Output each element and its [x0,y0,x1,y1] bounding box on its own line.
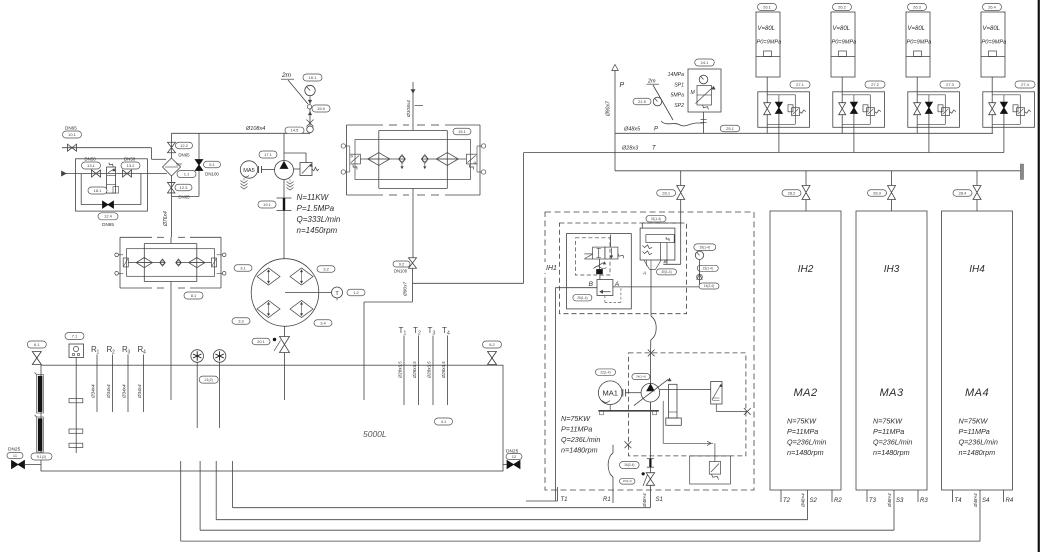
induction heater unit IH3 box [856,211,927,490]
svg-text:Ø34x4: Ø34x4 [106,384,111,399]
svg-text:3.3: 3.3 [238,318,244,323]
wire feed valve 28.1 into IH1 pilot valve [680,200,682,265]
motor MA5 [240,161,257,178]
label ellipse 14(2-4) [699,283,719,289]
junction X left [625,441,632,448]
svg-text:Ø48×4: Ø48×4 [642,493,647,508]
svg-text:P: P [654,127,658,133]
svg-text:Ø34x4: Ø34x4 [91,384,96,399]
svg-text:N=75KW: N=75KW [959,417,989,426]
IH1 pump sub-block dashed box [629,353,746,456]
motor MA1 [598,381,622,405]
svg-text:P0=9MPa: P0=9MPa [982,40,1007,46]
suction filter element left [128,262,165,264]
svg-text:N=75KW: N=75KW [873,417,903,426]
svg-text:28.3: 28.3 [873,190,882,195]
proportional pilot on valve [599,259,601,269]
label ellipse 22(1-4) [596,369,616,376]
svg-text:Q=333L/min: Q=333L/min [297,215,341,224]
svg-text:N=75KW: N=75KW [787,417,817,426]
svg-text:R4: R4 [1006,498,1014,504]
cooler assembly circle [251,259,319,327]
check valve in fill block [103,201,114,208]
label ellipse 8.1 [184,292,203,299]
svg-text:3.2: 3.2 [323,266,329,271]
svg-text:12.3: 12.3 [180,185,189,190]
gauge isolation valve and check to header [309,109,311,126]
svg-text:V=80L: V=80L [833,26,851,32]
air breather 6.2 on tank [483,341,502,348]
pump base rail [598,410,658,412]
wire suction line S2 from tank [215,461,217,520]
label ellipse 17.1 [259,151,277,158]
valve 9.2 DN100 on return [412,195,414,258]
induction heater unit IH4 box [942,211,1013,490]
svg-text:19.1: 19.1 [263,202,272,207]
label ellipse 23(1-4) [697,265,718,271]
svg-text:DN50: DN50 [85,157,97,162]
svg-text:MA2: MA2 [793,387,817,399]
sheet right border [1038,0,1040,552]
svg-text:1.2: 1.2 [353,290,359,295]
svg-text:SP2: SP2 [674,103,684,109]
label ellipse 1.2 [347,289,365,296]
wire 27.4 to T bus [1003,114,1005,153]
wire pump riser [283,133,285,160]
svg-text:12.4: 12.4 [104,214,113,219]
cooler thermometer T [285,292,332,294]
port T2 [780,490,782,502]
coupling MA1 [622,389,624,397]
svg-text:Q=236L/min: Q=236L/min [959,438,998,447]
svg-text:27.3: 27.3 [946,82,955,87]
wire pressure switch to P bus with orifice [703,112,705,133]
svg-text:26.3: 26.3 [913,4,922,9]
label ellipse 14.5 [285,127,304,134]
reducing valve B-A [597,280,613,296]
isolation valve 28.2 on IH2 feed [805,171,807,186]
svg-text:n=1480rpm: n=1480rpm [873,448,910,457]
accumulator valve block 27.4 [1015,81,1035,88]
shutoff valve (hollow) in block 27.4 [989,103,996,115]
svg-text:27.1: 27.1 [796,82,805,87]
svg-text:1.1: 1.1 [184,171,190,176]
wire return branch from T collector [413,282,524,284]
junction X right [744,408,751,415]
IH1 valve sub-block box [567,234,632,309]
check valve left [399,155,406,164]
label ellipse 25(1-4) [573,294,592,301]
svg-text:DN25: DN25 [8,447,21,453]
wire T collector down from T bus [523,153,525,284]
accumulator 26.3 V=80L P0=9MPa [908,4,927,11]
svg-text:T1: T1 [561,497,568,503]
svg-text:25(1-4): 25(1-4) [577,296,587,300]
wire A line to gauge chain [613,286,700,288]
air breather 6.1 on tank [27,341,46,348]
shutoff valve (closed) in block 27.2 [853,95,855,102]
svg-text:7.1: 7.1 [72,333,78,338]
svg-text:18.1: 18.1 [94,188,103,193]
IH1 inner dashed box [559,223,686,314]
svg-text:Ø108x4: Ø108x4 [245,126,265,132]
svg-text:MA5: MA5 [243,168,255,174]
svg-text:14(2-4): 14(2-4) [704,284,714,288]
svg-text:n=1450rpm: n=1450rpm [297,226,338,235]
pump control cylinder [669,384,677,418]
label ellipse 16.1 [303,74,322,81]
svg-text:B: B [589,281,594,288]
svg-text:21.5: 21.5 [638,99,647,104]
wire suction from tank to duplex filter 8.1 [170,288,172,400]
funnel to port A [644,260,650,270]
svg-text:3.4: 3.4 [320,320,326,325]
svg-text:S4: S4 [982,498,990,504]
wire cooler drain into tank [284,353,286,401]
svg-text:Q=236L/min: Q=236L/min [561,435,600,444]
svg-text:2m: 2m [281,72,292,79]
float switch rod in tank [75,358,77,454]
svg-text:15.1: 15.1 [458,129,467,134]
pressure gauge on header [305,85,315,95]
svg-text:21(2): 21(2) [205,378,213,382]
wire suction line S3 from tank [199,461,201,530]
flexible coupling on pump drop [283,180,285,199]
svg-text:P=11MPa: P=11MPa [561,425,592,434]
wire 27.2 to T bus [853,114,855,153]
wire pilot valve output with flexible hose [650,270,652,317]
wire 2m hose diagonal and flex hose to P bus [653,85,673,120]
suction filter inner box [127,249,215,277]
junction X top [648,350,655,357]
svg-text:27.4: 27.4 [1021,82,1030,87]
svg-text:3.1: 3.1 [240,265,246,270]
drain valve box in pump block [690,456,731,484]
svg-text:31(1-4): 31(1-4) [651,217,661,221]
oil tank 5000L [41,365,503,471]
svg-text:24.1: 24.1 [701,60,710,65]
wire accumulator 26.4 to valve block [991,77,993,103]
wire fill block main line with inlet arrow [66,173,167,175]
check valve right [421,155,428,164]
label ellipse 3.2 [317,266,335,273]
solenoid directional valve W [610,235,612,248]
svg-text:Ø48×4: Ø48×4 [973,493,978,508]
svg-text:P0=9MPa: P0=9MPa [757,40,782,46]
wire accumulator 26.1 to valve block [766,77,768,103]
svg-text:14.5: 14.5 [291,128,300,133]
label ellipse 15(2-4) [620,478,635,484]
label ellipse 9.1(2) [31,453,52,460]
svg-text:DN65: DN65 [102,222,114,227]
svg-text:Q=236L/min: Q=236L/min [787,438,826,447]
wire return line into duplex filter with arrow [412,82,414,125]
svg-text:DN50: DN50 [124,157,136,162]
svg-text:10.1: 10.1 [68,132,77,137]
svg-text:6.2: 6.2 [489,342,495,347]
wire T bus #28x3 [524,152,1004,154]
cooler check diamonds [257,268,280,285]
fill unit block box [76,159,148,211]
svg-text:Ø34x4: Ø34x4 [122,384,127,399]
svg-text:26.2: 26.2 [838,4,847,9]
valve 12.3 DN65 [171,176,173,237]
svg-text:20.1: 20.1 [257,339,266,344]
suction check right [176,259,182,266]
label ellipse 25.1 [720,125,740,132]
wire S1 suction with flow meter [649,402,651,459]
svg-text:Ø34x4: Ø34x4 [137,384,142,399]
svg-text:IH3: IH3 [884,264,900,275]
shutoff valve (hollow) in block 27.2 [839,103,846,115]
svg-text:V=80L: V=80L [908,26,926,32]
svg-text:n=1480rpm: n=1480rpm [959,448,996,457]
svg-text:16.1: 16.1 [309,75,318,80]
level gauge lower [37,417,44,452]
wire P manifold to IH valves [614,133,616,171]
accumulator 26.2 V=80L P0=9MPa [833,4,852,11]
accumulator valve block 27.3 [940,81,960,88]
wire B line from valve to drop [555,287,597,289]
svg-text:Ø28x3.5: Ø28x3.5 [412,361,417,379]
level-temperature indicator 7.1 [65,333,84,340]
wire accumulator 26.3 to valve block [916,77,918,103]
svg-text:P=11MPa: P=11MPa [787,427,818,436]
shutoff valve (hollow) in block 27.1 [764,103,771,115]
valve 13.1 [92,170,101,177]
filter element right [421,158,466,160]
suction changeover valves [123,258,128,267]
duplex filter ports [341,144,345,148]
svg-text:5.1: 5.1 [209,162,215,167]
main pump P1 variable [641,383,660,402]
svg-text:5W: 5W [176,163,182,167]
svg-text:DN65: DN65 [178,153,190,158]
svg-text:15.5: 15.5 [317,106,326,111]
svg-text:T2: T2 [783,498,791,504]
svg-text:MA3: MA3 [879,387,904,399]
plugged end bar of P manifold [1020,164,1023,180]
svg-text:9.2: 9.2 [399,261,405,266]
wire 27.3 to T bus [928,114,930,153]
label ellipse 19.1 [258,201,276,208]
svg-text:22(1-4): 22(1-4) [600,370,610,374]
label ellipse 16(2-4) [620,462,640,469]
svg-text:R2: R2 [834,498,842,504]
svg-text:DN100: DN100 [205,172,219,177]
svg-text:Ø28x3.5: Ø28x3.5 [427,361,432,379]
svg-text:24(1-4): 24(1-4) [636,375,646,379]
arrow down to valve [309,96,311,104]
shutoff valve (closed) in block 27.3 [928,95,930,102]
pressure switch box SP1/SP2 [688,69,721,112]
svg-text:16(2-4): 16(2-4) [624,463,634,467]
wire B line drop to T1 [554,288,556,501]
svg-text:17.1: 17.1 [264,152,273,157]
check valve on gauge chain [699,260,701,287]
suction filter ports [115,253,119,257]
svg-text:T4: T4 [955,498,963,504]
valve 5.1 DN100 bypass [198,133,200,196]
accumulator 26.4 V=80L P0=9MPa [983,4,1002,11]
svg-text:MA4: MA4 [965,387,989,399]
port R2 [831,490,833,502]
wire breather diagonal [288,80,308,104]
svg-text:IH1: IH1 [546,265,557,272]
wire fill line to strainer [151,148,153,160]
svg-text:30(1-4): 30(1-4) [661,270,671,274]
svg-text:8.1: 8.1 [191,293,197,298]
label ellipse 3.1 [234,265,252,272]
svg-text:12: 12 [512,454,517,459]
wire bypass to suction line [172,195,200,197]
suction check left [160,259,166,266]
relief valve in block 27.1 [788,105,793,112]
svg-text:14MPa: 14MPa [668,72,685,78]
svg-text:26.4: 26.4 [988,4,997,9]
svg-text:MA1: MA1 [602,389,617,398]
svg-text:12.2: 12.2 [180,143,189,148]
svg-text:S3: S3 [896,498,904,504]
svg-text:P=11MPa: P=11MPa [873,427,904,436]
angle valve on S1 [649,467,651,473]
ground below motor MA5 [243,178,245,180]
wire suction line S4 from tank [180,461,182,541]
svg-text:15(2-4): 15(2-4) [623,479,632,483]
shutoff valve (closed) in block 27.1 [778,95,780,102]
svg-text:P0=9MPa: P0=9MPa [907,40,932,46]
svg-text:6.1: 6.1 [34,342,40,347]
pressure compensator valve [711,382,722,405]
changeover valve left [350,154,361,164]
duplex suction filter 8.1 box [120,236,152,238]
wire 27.1 to P bus [766,115,768,134]
duplex filter inner box [355,140,471,180]
svg-text:28.1: 28.1 [662,190,671,195]
svg-text:n=1480rpm: n=1480rpm [561,446,598,455]
label ellipse 24.1 [695,59,715,66]
svg-text:Q=236L/min: Q=236L/min [873,438,912,447]
svg-text:26.1: 26.1 [763,4,772,9]
svg-text:R1: R1 [603,497,611,503]
svg-text:P0=9MPa: P0=9MPa [832,40,857,46]
isolation valve 28.3 on IH3 feed [891,171,893,186]
svg-text:SP1: SP1 [674,83,684,89]
label ellipse 3.4 [314,320,332,327]
duplex return filter 15.1 box [347,124,384,126]
pilot operated valve 31(1-4) [646,215,666,222]
svg-text:S1: S1 [656,497,663,503]
IH1 inner dashed sub-box [575,238,610,275]
port R1 with hose [612,445,614,453]
wire P bus #48x5 [615,132,993,134]
relief valve beside pump MA5 [294,168,301,170]
svg-text:T3: T3 [869,498,877,504]
relief valve in block 27.4 [1013,105,1018,112]
svg-text:V=80L: V=80L [983,26,1001,32]
port R3 [917,490,919,502]
isolation valve 28.1 on IH1 feed [680,171,682,186]
svg-text:Ø48×4: Ø48×4 [801,493,806,508]
svg-text:Ø108x4: Ø108x4 [406,100,412,118]
needle valve 20.1 under cooler [284,326,286,336]
svg-text:Ø90x7: Ø90x7 [403,282,409,297]
svg-text:S2: S2 [810,498,818,504]
svg-text:13.1: 13.1 [87,163,96,168]
port T1 [557,487,559,501]
wire 27.3 to P bus [916,115,918,134]
valve 12.2 DN65 [171,133,173,158]
svg-text:P=11MPa: P=11MPa [959,427,990,436]
label ellipse 18.1 [88,187,107,194]
isolation valve 28.4 on IH4 feed [976,171,978,186]
label ellipse 3.3 [232,318,250,325]
wire pump drop to cooler [283,211,285,259]
wire accumulator 26.2 to valve block [841,77,843,103]
duplex filter manifolds [412,125,414,131]
node P riser (vertical pipe #90x7 with up arrow) [614,70,616,133]
svg-text:N=75KW: N=75KW [561,414,591,423]
svg-text:25.1: 25.1 [726,126,735,131]
label ellipse 15.1 [453,128,471,135]
svg-text:IH2: IH2 [798,264,814,275]
svg-text:Ø76x4: Ø76x4 [163,211,169,227]
wire return drop into tank [412,268,414,302]
suction filter manifolds [170,237,172,243]
port T4 [952,490,954,502]
wire 27.1 to T bus [778,114,780,153]
svg-text:28.2: 28.2 [788,190,797,195]
wire suction line S1 from tank [232,461,234,508]
suction filter element right [176,262,212,264]
label ellipse 24(1-4) [632,374,650,380]
wire 27.2 to P bus [841,115,843,134]
port R4 [1003,490,1005,502]
pilot drain dashed [604,296,606,303]
svg-text:Ø28x3: Ø28x3 [621,146,639,152]
hand pump 3-section valve [107,167,116,193]
shutoff valve (closed) in block 27.4 [1003,95,1005,102]
node circle at 15.5 [307,105,311,109]
accumulator 26.1 V=80L P0=9MPa [758,4,777,11]
level gauge upper [37,375,44,414]
wire pump discharge header #108x4 [172,132,311,134]
svg-text:DN100: DN100 [394,269,408,274]
port T3 [866,490,868,502]
wire 27.4 to P bus [991,115,993,134]
svg-text:28.4: 28.4 [959,190,968,195]
coupling MA5 [258,166,260,173]
svg-text:N=11KW: N=11KW [297,193,330,202]
svg-text:4.1: 4.1 [441,419,447,424]
svg-text:5000L: 5000L [363,429,387,439]
wire fill block bypass loop [80,174,82,205]
accumulator valve block 27.1 [790,81,810,88]
svg-text:IH4: IH4 [969,264,985,275]
svg-text:V=80L: V=80L [758,26,776,32]
label ellipse 29(1-4) with gauge [694,244,716,251]
wire pump to compensator [660,389,711,391]
svg-text:P=1.5MPa: P=1.5MPa [297,204,335,213]
svg-text:Ø90x7: Ø90x7 [606,101,612,117]
induction heater unit IH1 dashed box [545,212,754,490]
svg-text:27.2: 27.2 [871,82,880,87]
immersion heaters 21(2) [191,350,204,363]
relief valve in block 27.3 [938,105,943,112]
relief valve in block 27.2 [863,105,868,112]
svg-text:13.2: 13.2 [127,163,136,168]
ground below pump P5 [289,180,291,182]
